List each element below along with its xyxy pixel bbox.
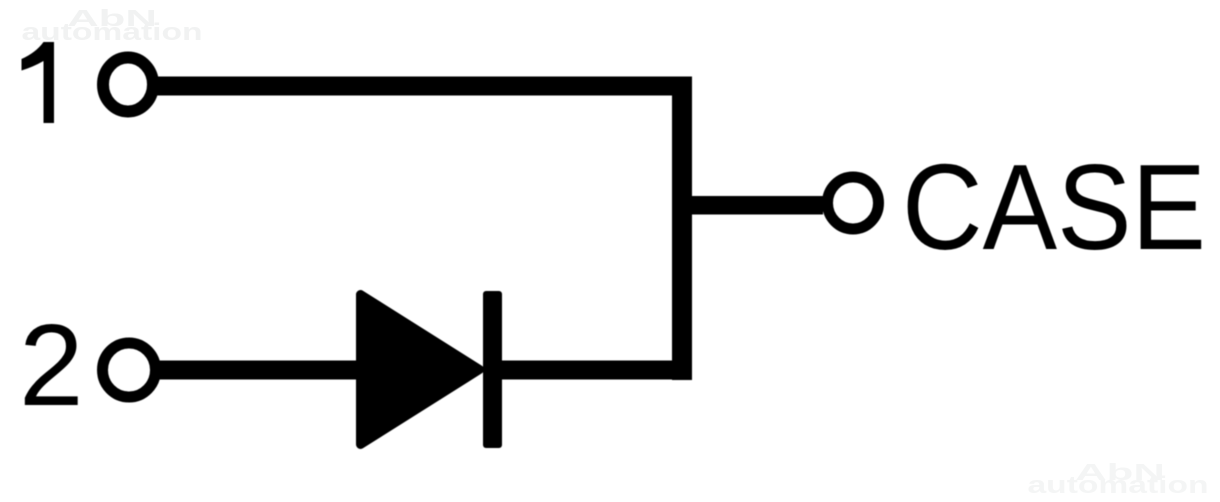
svg-text:automation: automation (21, 19, 202, 45)
pin label 1 (22, 42, 55, 123)
terminal circle pin 1 (103, 58, 153, 112)
terminal circle CASE (828, 177, 879, 229)
wire: vertical riser (672, 77, 692, 381)
diode D1 anode triangle (361, 295, 480, 445)
wire: pin 1 to riser (top horizontal) (156, 77, 692, 96)
svg-text:2: 2 (19, 300, 84, 430)
svg-text:CASE: CASE (902, 139, 1206, 275)
watermark top-left (21, 6, 202, 46)
watermark bottom-right (1027, 460, 1208, 499)
wire: pin 2 to diode anode (158, 361, 358, 380)
svg-text:automation: automation (1027, 472, 1208, 498)
wire: riser to CASE terminal (692, 196, 823, 215)
terminal circle pin 2 (103, 343, 156, 397)
diode D1 cathode bar (483, 291, 502, 448)
wire: diode cathode to riser (494, 361, 692, 380)
